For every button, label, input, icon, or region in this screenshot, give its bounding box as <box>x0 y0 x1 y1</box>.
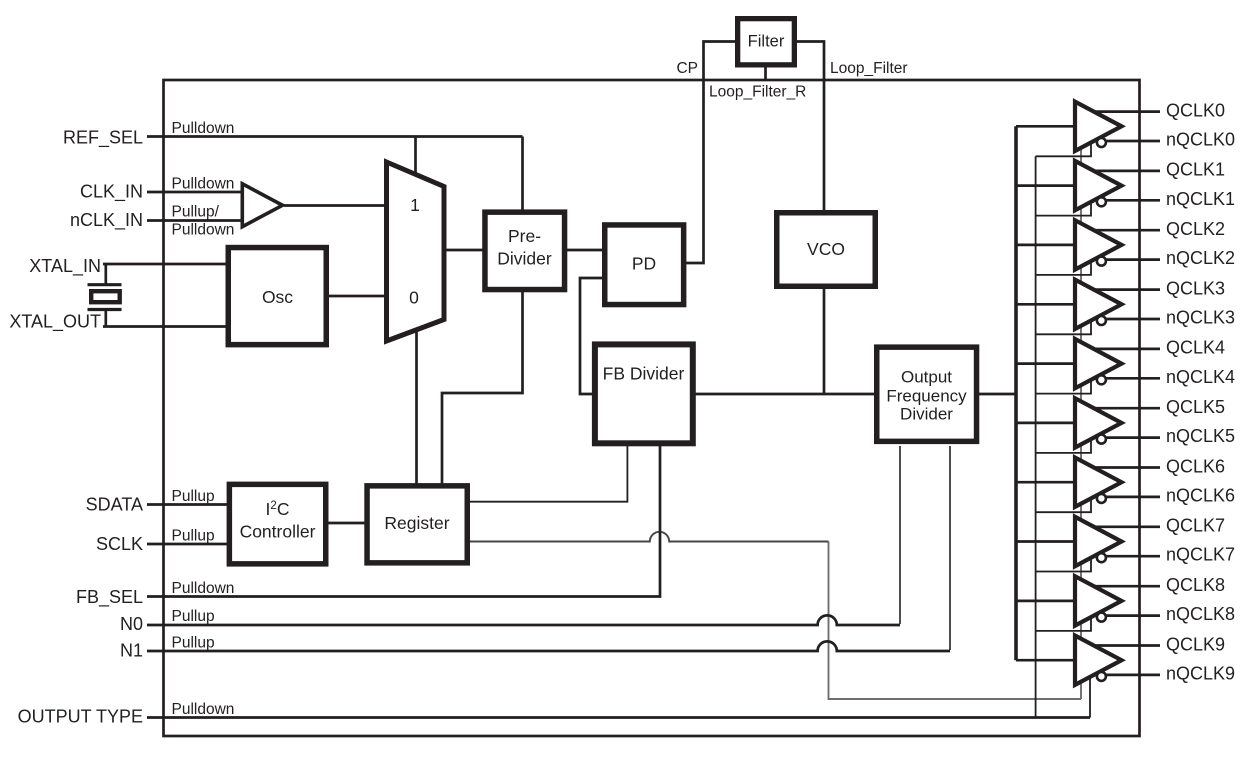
svg-text:Pullup: Pullup <box>172 488 215 505</box>
svg-text:SCLK: SCLK <box>96 534 143 554</box>
svg-text:nQCLK6: nQCLK6 <box>1166 485 1235 505</box>
svg-text:Frequency: Frequency <box>886 387 967 406</box>
svg-text:N1: N1 <box>120 641 143 661</box>
svg-text:Pre-: Pre- <box>508 226 541 246</box>
svg-text:QCLK1: QCLK1 <box>1166 160 1225 180</box>
svg-text:0: 0 <box>409 288 419 308</box>
svg-text:VCO: VCO <box>807 239 845 259</box>
svg-text:nCLK_IN: nCLK_IN <box>70 210 143 231</box>
svg-text:Pullup: Pullup <box>172 635 215 652</box>
svg-text:XTAL_OUT: XTAL_OUT <box>9 312 101 333</box>
svg-text:REF_SEL: REF_SEL <box>63 128 143 149</box>
svg-text:QCLK2: QCLK2 <box>1166 219 1225 239</box>
svg-text:nQCLK7: nQCLK7 <box>1166 545 1235 565</box>
svg-text:Register: Register <box>384 513 449 533</box>
svg-text:Pullup: Pullup <box>172 608 215 625</box>
svg-text:Pulldown: Pulldown <box>172 580 235 597</box>
svg-text:PD: PD <box>632 254 656 274</box>
svg-text:Osc: Osc <box>262 287 293 307</box>
svg-text:Pulldown: Pulldown <box>172 120 235 137</box>
svg-text:Output: Output <box>901 368 952 387</box>
svg-text:QCLK7: QCLK7 <box>1166 516 1225 536</box>
svg-text:FB_SEL: FB_SEL <box>76 587 143 608</box>
svg-text:OUTPUT TYPE: OUTPUT TYPE <box>18 707 143 727</box>
svg-text:Divider: Divider <box>497 249 552 269</box>
svg-text:FB Divider: FB Divider <box>603 364 685 384</box>
svg-text:Pulldown: Pulldown <box>172 176 235 193</box>
svg-text:Controller: Controller <box>240 522 316 542</box>
svg-text:nQCLK5: nQCLK5 <box>1166 426 1235 446</box>
svg-text:nQCLK1: nQCLK1 <box>1166 189 1235 209</box>
svg-text:QCLK0: QCLK0 <box>1166 100 1225 120</box>
svg-text:nQCLK3: nQCLK3 <box>1166 307 1235 327</box>
svg-text:QCLK9: QCLK9 <box>1166 634 1225 654</box>
svg-text:nQCLK0: nQCLK0 <box>1166 130 1235 150</box>
svg-text:QCLK3: QCLK3 <box>1166 278 1225 298</box>
svg-text:1: 1 <box>410 195 420 215</box>
svg-text:QCLK8: QCLK8 <box>1166 575 1225 595</box>
svg-text:Filter: Filter <box>748 33 785 51</box>
svg-text:Pullup: Pullup <box>172 528 215 545</box>
svg-text:Loop_Filter: Loop_Filter <box>830 60 908 77</box>
svg-text:CP: CP <box>676 60 698 77</box>
svg-text:Pulldown: Pulldown <box>172 701 235 718</box>
svg-text:XTAL_IN: XTAL_IN <box>29 256 101 277</box>
svg-text:QCLK5: QCLK5 <box>1166 397 1225 417</box>
svg-text:Loop_Filter_R: Loop_Filter_R <box>709 84 806 101</box>
svg-text:QCLK4: QCLK4 <box>1166 338 1225 358</box>
svg-text:nQCLK9: nQCLK9 <box>1166 663 1235 683</box>
svg-text:nQCLK4: nQCLK4 <box>1166 367 1235 387</box>
svg-text:QCLK6: QCLK6 <box>1166 456 1225 476</box>
svg-text:CLK_IN: CLK_IN <box>80 182 143 203</box>
svg-text:N0: N0 <box>120 614 143 634</box>
svg-text:nQCLK2: nQCLK2 <box>1166 248 1235 268</box>
svg-text:Pullup/: Pullup/ <box>172 204 220 221</box>
svg-text:I2C: I2C <box>266 499 290 519</box>
svg-text:SDATA: SDATA <box>86 495 143 515</box>
svg-text:Divider: Divider <box>900 405 953 424</box>
svg-text:nQCLK8: nQCLK8 <box>1166 604 1235 624</box>
svg-text:Pulldown: Pulldown <box>172 222 235 239</box>
